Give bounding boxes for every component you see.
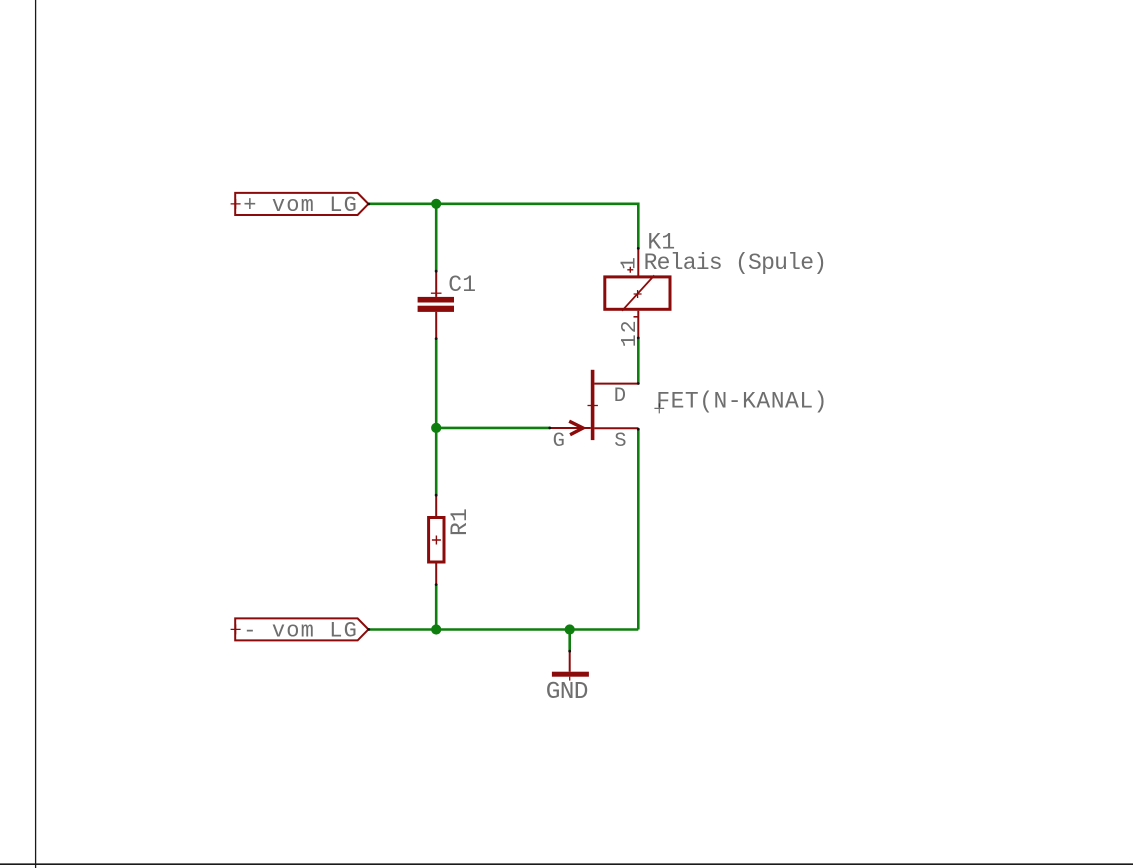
svg-text:C1: C1 (448, 272, 476, 298)
flag + vom LG outline (235, 193, 368, 215)
pin connection dot FET gate (548, 427, 551, 430)
ground symbol origin tick (569, 677, 571, 681)
capacitor C1 top plate (418, 297, 454, 303)
transistor Q1 gate arrow (569, 421, 583, 435)
wire net top horizontal (+ rail) (369, 204, 639, 249)
flag + vom LG origin cross (231, 199, 241, 209)
wire FET source down to bottom rail (637, 429, 640, 629)
capacitor C1 bottom pin (435, 312, 437, 339)
relay K1 coil box (605, 277, 670, 309)
svg-text:D: D (614, 385, 626, 408)
frame left vertical border line (35, 0, 37, 868)
wire gate junction down to R1 top (435, 428, 438, 495)
capacitor C1 top pin (435, 271, 437, 297)
transistor Q1 source lead (594, 427, 638, 429)
transistor Q1 vertical channel bar (591, 370, 595, 440)
pin connection dot FET source (637, 428, 640, 431)
svg-text:G: G (553, 430, 565, 453)
flag - vom LG outline (235, 618, 368, 640)
transistor Q1 gate lead (550, 427, 591, 429)
junction node at bottom rail / R1 (431, 624, 441, 634)
relay K1 plus polarity mark (627, 267, 633, 273)
pin connection dot flag plus tip (367, 203, 370, 206)
relay K1 coil diagonal (622, 275, 654, 310)
flag - vom LG origin cross (231, 624, 241, 634)
pin connection dot flag minus tip (367, 628, 370, 631)
junction node at top rail / C1 (431, 199, 441, 209)
relay K1 minus polarity mark (634, 316, 639, 318)
ground symbol pin wire (569, 651, 571, 672)
pin connection dot R1 top (435, 494, 438, 497)
svg-text:+ vom LG: + vom LG (243, 193, 358, 218)
svg-text:- vom LG: - vom LG (243, 619, 358, 644)
transistor Q1 drain lead (594, 383, 638, 385)
svg-text:S: S (614, 430, 626, 453)
relay K1 pin 1 wire (637, 248, 639, 275)
capacitor C1 origin cross (431, 292, 442, 294)
ground symbol bar (552, 672, 589, 677)
svg-text:GND: GND (546, 679, 588, 706)
wire net bottom horizontal (- rail) (369, 628, 639, 631)
resistor R1 origin cross (432, 536, 441, 545)
transistor Q1 origin cross (588, 405, 598, 407)
wire relay pin2 to FET drain (637, 338, 640, 384)
capacitor C1 bottom plate (418, 306, 454, 312)
resistor R1 bottom pin (435, 564, 437, 585)
junction node at gate (431, 423, 441, 433)
pin connection dot R1 bottom (435, 583, 438, 586)
frame bottom horizontal border line (0, 863, 1133, 865)
svg-text:FET(N-KANAL): FET(N-KANAL) (656, 389, 828, 415)
resistor R1 body box (429, 518, 444, 563)
resistor R1 top pin (435, 495, 437, 516)
pin connection dot GND (568, 650, 571, 653)
note text FET(N-KANAL) origin cross (654, 403, 664, 413)
relay K1 origin cross (634, 290, 642, 298)
pin connection dot C1 bottom (435, 337, 438, 340)
wire top junction down to C1 (435, 204, 438, 271)
wire gate junction to FET gate pin (436, 427, 550, 430)
pin connection dot relay pin2 (637, 337, 640, 340)
wire C1 bottom to gate junction (435, 339, 438, 430)
pin connection dot FET drain (637, 382, 640, 385)
pin connection dot relay pin1 (637, 247, 640, 250)
pin connection dot C1 top (435, 270, 438, 273)
svg-text:Relais (Spule): Relais (Spule) (644, 250, 827, 276)
svg-text:12: 12 (618, 319, 642, 347)
junction node at bottom rail / GND (565, 624, 575, 634)
relay K1 pin 2 wire (637, 311, 639, 338)
wire R1 bottom to bottom rail (435, 585, 438, 630)
svg-text:R1: R1 (447, 508, 473, 536)
wire GND stub (568, 630, 571, 652)
